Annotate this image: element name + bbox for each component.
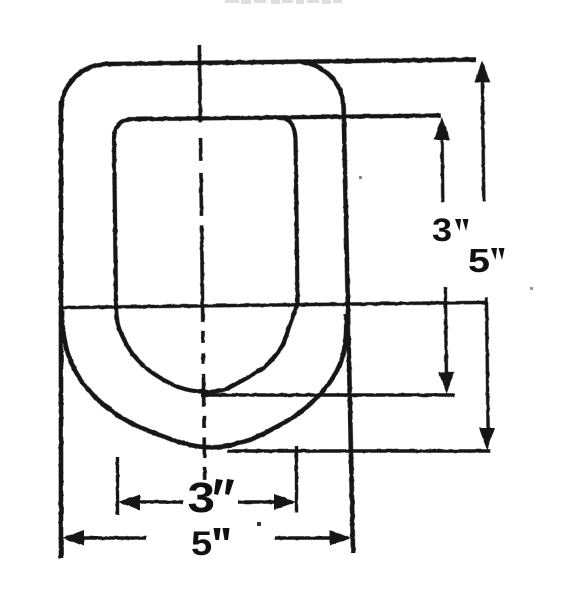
- bottom 5-inch right arrowhead: [330, 530, 352, 546]
- bottom 3-inch right extension tick: [295, 446, 298, 513]
- horizontal mid reference line: [61, 302, 487, 307]
- bottom 3-inch dimension right shaft: [238, 500, 278, 503]
- bottom 3-inch left extension tick: [116, 457, 119, 515]
- inner profile: left edge + top-left corner + top edge + extension line: [114, 115, 443, 307]
- bottom 5-inch left arrowhead: [62, 530, 84, 546]
- svg-text:3: 3: [432, 213, 452, 249]
- svg-text:5: 5: [191, 524, 212, 563]
- centerline bottom dash: [203, 467, 207, 480]
- dimension text labels (unrotated, absolute): [188, 213, 505, 563]
- bottom 5-inch dimension right shaft: [275, 536, 331, 539]
- double-prime of right 3 inch: [455, 219, 469, 231]
- right 5-inch up arrowhead: [474, 60, 490, 82]
- outer profile: right edge + bottom extension line: [344, 108, 353, 553]
- extension line from inner-profile bottom to right: [201, 393, 455, 396]
- centerline dash at outer bottom: [202, 438, 206, 458]
- scan speck near bottom 3 label: [257, 522, 261, 526]
- right 5-inch dimension line, lower shaft: [486, 297, 488, 428]
- outer profile: left edge (straight, also 5-inch left extension): [59, 101, 64, 558]
- double-prime of bottom 5 inch: [214, 528, 230, 540]
- double-prime of bottom 3 inch: [214, 479, 234, 495]
- vertical centerline (dash-dot), solid over top edges: [198, 45, 203, 122]
- inner profile: bottom arch-shaped arc: [116, 306, 298, 393]
- right 3-inch up arrowhead: [434, 117, 450, 140]
- right 5-inch down arrowhead: [479, 428, 495, 450]
- right 3-inch dimension line, lower shaft: [445, 287, 446, 376]
- centerline segment through inner bottom: [202, 374, 206, 407]
- right 3-inch dimension line, upper shaft: [440, 135, 444, 202]
- cut-off title text at top edge: [225, 0, 342, 4]
- centerline dash: [202, 416, 206, 428]
- centerline dash: [199, 138, 203, 161]
- outer profile: top-right corner: [296, 61, 344, 109]
- centerline dash: [199, 173, 203, 216]
- svg-text:5: 5: [468, 242, 490, 279]
- centerline long segment through mid line: [202, 225, 203, 322]
- bottom 3-inch dimension left shaft: [136, 500, 183, 503]
- scan speck upper right: [359, 176, 362, 179]
- outer profile: left edge + top-left corner + top edge + top extension line: [61, 60, 477, 111]
- inner profile: top-right corner + right edge: [281, 117, 298, 306]
- svg-text:3: 3: [188, 473, 215, 521]
- right 5-inch dimension line, upper shaft: [482, 77, 484, 201]
- extension line from outer-profile bottom to right: [227, 449, 490, 452]
- centerline dash: [201, 331, 205, 343]
- double-prime of right 5 inch: [491, 248, 505, 260]
- right 3-inch down arrowhead: [438, 372, 454, 394]
- bottom 3-inch left arrowhead: [118, 494, 140, 510]
- outer profile: bottom arch-shaped arc: [62, 307, 348, 449]
- bottom 3-inch right arrowhead: [274, 494, 296, 510]
- bottom 5-inch dimension left shaft: [80, 536, 146, 539]
- centerline dash: [201, 353, 205, 364]
- scan speck far right: [530, 287, 533, 290]
